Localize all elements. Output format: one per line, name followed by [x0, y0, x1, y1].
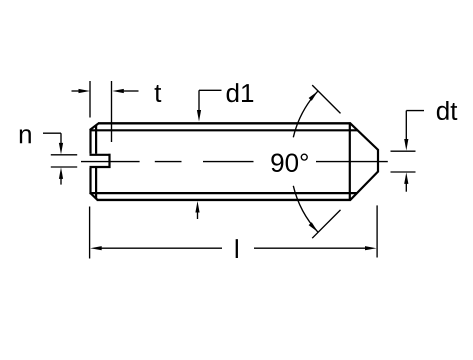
n bottom extension line [51, 166, 77, 168]
n bottom arrow stem [60, 178, 62, 185]
bottom-left chamfer diagonal [90, 193, 98, 200]
90 degree arc bottom arrowhead [309, 222, 318, 232]
l right arrowhead [365, 246, 377, 250]
t left arrow stem [72, 90, 81, 92]
90 degree cone bottom extension diagonal [312, 210, 340, 238]
dt leader vertical [405, 111, 407, 140]
90 degree cone top extension diagonal [312, 85, 340, 113]
cone top face [350, 123, 378, 150]
chamfer edge line upper segment [95, 125, 97, 154]
t left arrowhead [79, 89, 91, 93]
d1 bottom arrowhead (up) [195, 201, 199, 213]
cone flat tip vertical [377, 149, 379, 172]
l dimension right extension line [376, 205, 378, 257]
n top arrowhead (down) [59, 143, 63, 155]
l dimension line left part [96, 247, 223, 249]
90 degree label [271, 154, 283, 172]
slot bottom (right end) vertical [108, 154, 110, 168]
body right end vertical [349, 122, 351, 200]
l dimension left extension line [89, 207, 91, 259]
thread root line top [90, 129, 357, 131]
thread root line bottom [90, 192, 357, 194]
center line dash 4 [316, 161, 388, 163]
n leader vertical [60, 133, 62, 144]
left face upper segment [89, 129, 91, 154]
cone bottom face [350, 171, 378, 200]
dt bottom line [391, 171, 416, 173]
dt bottom arrow stem [405, 183, 407, 192]
center line dash 2 [155, 161, 182, 163]
chamfer edge line lower segment [95, 168, 97, 199]
screw body outline: bottom outer line [97, 199, 351, 201]
l left arrowhead [90, 246, 102, 250]
n leader horizontal [43, 132, 61, 134]
n bottom arrowhead (up) [59, 167, 63, 179]
d1 top arrowhead (down) [197, 110, 201, 122]
center line dash 3 [203, 161, 254, 163]
top-left chamfer diagonal [90, 123, 99, 130]
n label [20, 129, 31, 143]
dt leader horizontal [406, 110, 424, 112]
d1 leader vertical [198, 90, 200, 111]
left face lower segment [89, 168, 91, 193]
center line dash 1 [81, 161, 140, 163]
slot bottom edge [90, 166, 111, 168]
dt top line [391, 150, 416, 152]
t right arrow stem [123, 90, 139, 92]
dt label [437, 101, 449, 120]
screw body outline: top outer line [98, 122, 351, 124]
l label [236, 239, 238, 258]
90 degree arc lower segment [293, 186, 318, 232]
dt bottom arrowhead (up) [404, 172, 408, 184]
90 degree arc top arrowhead [309, 91, 318, 101]
d1 bottom arrow stem [197, 212, 199, 219]
n top extension line [51, 154, 77, 156]
t dimension right extension line [111, 81, 113, 142]
t dimension left extension line [89, 81, 91, 118]
l dimension line right part [254, 247, 372, 249]
t right arrowhead [112, 89, 124, 93]
90 degree arc upper segment [293, 91, 318, 137]
d1 leader horizontal [199, 89, 222, 91]
dt top arrowhead (down) [404, 139, 408, 151]
d1 label [227, 83, 239, 102]
t label [155, 85, 162, 102]
slot top edge [90, 154, 111, 156]
